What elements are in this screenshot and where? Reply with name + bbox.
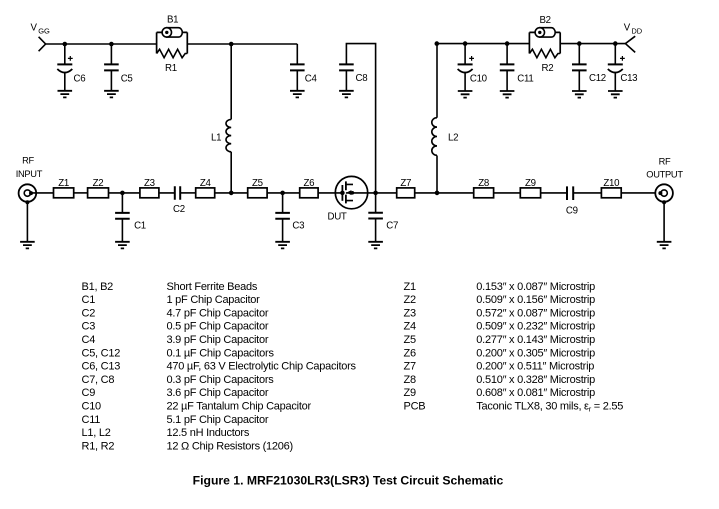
svg-text:Z5: Z5 (404, 334, 416, 346)
capacitor C10 (tantalum electrolytic) (458, 44, 488, 91)
value label Z7 : 0.200 x 0.511 Microstrip (404, 361, 595, 373)
svg-text:0.277″ x 0.143″ Microstrip: 0.277″ x 0.143″ Microstrip (476, 334, 595, 346)
svg-text:R1, R2: R1, R2 (82, 440, 115, 452)
value label Z9 : 0.608 x 0.081 Microstrip (404, 387, 596, 399)
node junction C1/main line (120, 191, 125, 196)
svg-text:Short Ferrite Beads: Short Ferrite Beads (167, 281, 258, 293)
wire Z6 to DUT gate (318, 192, 342, 194)
node junction C11/rail (505, 41, 510, 46)
node junction C6/rail (63, 42, 68, 47)
microstrip Z3 (140, 178, 159, 198)
node junction C5/rail (109, 42, 114, 47)
node junction L2/main line (435, 191, 440, 196)
microstrip Z9 (520, 178, 540, 198)
svg-text:0.5 pF Chip Capacitor: 0.5 pF Chip Capacitor (167, 321, 269, 333)
svg-text:5.1 pF Chip Capacitor: 5.1 pF Chip Capacitor (167, 414, 269, 426)
svg-text:0.608″ x 0.081″ Microstrip: 0.608″ x 0.081″ Microstrip (476, 387, 595, 399)
capacitor C11 (500, 44, 534, 91)
svg-text:C1: C1 (82, 294, 96, 306)
svg-text:12 Ω Chip Resistors (1206): 12 Ω Chip Resistors (1206) (167, 440, 293, 452)
value label C7, C8 : 0.3 pF Chip Capacitors (82, 374, 275, 386)
ground (RF input) (20, 242, 35, 249)
wire C8 net to DUT drain (346, 44, 375, 193)
node junction C10/rail (463, 41, 468, 46)
ground (C7) (368, 242, 383, 249)
svg-text:RF: RF (22, 156, 34, 166)
svg-text:Z1: Z1 (58, 178, 69, 189)
value label C5, C12 : 0.1 uF Chip Capacitors (82, 347, 275, 359)
svg-text:C9: C9 (566, 206, 578, 217)
node junction L2/rail (435, 41, 440, 46)
capacitor C12 (572, 44, 606, 91)
svg-text:4.7 pF Chip Capacitor: 4.7 pF Chip Capacitor (167, 307, 269, 319)
wire Z5 to Z6 (267, 192, 300, 194)
svg-text:C2: C2 (173, 204, 185, 215)
svg-text:C10: C10 (82, 401, 102, 413)
svg-text:PCB: PCB (404, 401, 426, 413)
svg-text:Z2: Z2 (404, 294, 416, 306)
value label Z8 : 0.510 x 0.328 Microstrip (404, 374, 596, 386)
ground (C3) (275, 242, 290, 249)
microstrip Z8 (474, 178, 494, 198)
svg-text:L1: L1 (211, 133, 221, 144)
capacitor C1 (115, 193, 146, 242)
svg-text:0.200″ x 0.511″ Microstrip: 0.200″ x 0.511″ Microstrip (476, 361, 594, 373)
node junction C12/rail (577, 41, 582, 46)
svg-text:B1: B1 (167, 15, 178, 26)
svg-text:22 µF Tantalum Chip Capacitor: 22 µF Tantalum Chip Capacitor (167, 401, 312, 413)
svg-text:470 µF, 63 V Electrolytic Chip: 470 µF, 63 V Electrolytic Chip Capacitor… (167, 361, 357, 373)
wire Z1 to Z2 (74, 192, 88, 194)
wire Z3 to C2 (159, 192, 175, 194)
svg-text:C7: C7 (386, 221, 398, 232)
value label Z4 : 0.509 x 0.232 Microstrip (404, 321, 596, 333)
svg-text:Z4: Z4 (404, 321, 416, 333)
svg-text:V: V (31, 23, 38, 34)
connector J2 RF OUTPUT (646, 157, 683, 242)
wire VDD arrow (625, 36, 635, 52)
value label B1, B2 : Short Ferrite Beads (82, 281, 258, 293)
svg-text:C5, C12: C5, C12 (82, 347, 121, 359)
svg-text:Z8: Z8 (404, 374, 416, 386)
svg-text:GG: GG (38, 26, 50, 35)
wire Z4 to Z5 (215, 192, 248, 194)
svg-text:C6, C13: C6, C13 (82, 361, 121, 373)
svg-text:R2: R2 (542, 63, 554, 74)
svg-text:0.153″ x 0.087″ Microstrip: 0.153″ x 0.087″ Microstrip (476, 281, 595, 293)
svg-text:Taconic TLX8, 30 mils, εr = 2.: Taconic TLX8, 30 mils, εr = 2.55 (476, 401, 623, 414)
wire VDD rail (left of B2) (437, 43, 530, 45)
svg-text:0.200″ x 0.305″ Microstrip: 0.200″ x 0.305″ Microstrip (476, 347, 595, 359)
connector J1 RF INPUT (16, 156, 43, 242)
svg-text:0.509″ x 0.232″ Microstrip: 0.509″ x 0.232″ Microstrip (476, 321, 595, 333)
wire Z8 to Z9 (494, 192, 521, 194)
wire Z9 to C9 (541, 192, 567, 194)
ground (C11) (500, 91, 515, 98)
ground (C1) (115, 242, 130, 249)
svg-text:0.509″ x 0.156″ Microstrip: 0.509″ x 0.156″ Microstrip (476, 294, 595, 306)
value label C4 : 3.9 pF Chip Capacitor (82, 334, 269, 346)
svg-text:C12: C12 (589, 73, 606, 84)
value label PCB : Taconic TLX8, 30 mils, er = 2.55 (404, 401, 624, 414)
svg-text:Z3: Z3 (404, 307, 416, 319)
microstrip Z10 (601, 178, 621, 198)
transistor DUT (LDMOS FET) (328, 176, 368, 222)
wire C9 to Z10 (573, 192, 601, 194)
value label C10 : 22 uF Tantalum Chip Capacitor (82, 401, 312, 413)
svg-text:R1: R1 (165, 63, 177, 74)
value label C2 : 4.7 pF Chip Capacitor (82, 307, 269, 319)
ground (C13) (608, 91, 623, 98)
svg-text:C11: C11 (82, 414, 101, 426)
value label C11 : 5.1 pF Chip Capacitor (82, 414, 269, 426)
svg-text:C2: C2 (82, 307, 96, 319)
ground (C8) (339, 91, 354, 98)
svg-text:1 pF Chip Capacitor: 1 pF Chip Capacitor (167, 294, 261, 306)
microstrip Z4 (196, 178, 215, 198)
microstrip Z7 (397, 178, 415, 198)
microstrip Z6 (300, 178, 318, 198)
microstrip Z2 (88, 178, 109, 198)
ground (RF output) (657, 242, 672, 249)
capacitor C3 (275, 193, 304, 242)
wire Z10 to J2 (621, 192, 660, 194)
value label Z2 : 0.509 x 0.156 Microstrip (404, 294, 596, 306)
value label Z5 : 0.277 x 0.143 Microstrip (404, 334, 596, 346)
svg-text:Z6: Z6 (404, 347, 416, 359)
value label Z3 : 0.572 x 0.087 Microstrip (404, 307, 596, 319)
svg-text:0.510″ x 0.328″ Microstrip: 0.510″ x 0.328″ Microstrip (476, 374, 595, 386)
wire VGG rail (right of B1) (187, 43, 297, 45)
svg-text:3.6 pF Chip Capacitor: 3.6 pF Chip Capacitor (167, 387, 269, 399)
wire VGG rail (left of B1) (46, 43, 157, 45)
capacitor C9 (series) (566, 186, 578, 216)
svg-text:C10: C10 (470, 73, 488, 84)
svg-text:C13: C13 (620, 73, 637, 84)
node junction DUT drain / C7 / C8 (373, 191, 378, 196)
svg-text:C3: C3 (292, 221, 304, 232)
capacitor C7 (368, 193, 398, 242)
microstrip Z1 (54, 178, 74, 198)
svg-text:B1, B2: B1, B2 (82, 281, 114, 293)
capacitor C13 (electrolytic) (608, 44, 637, 91)
value label L1, L2 : 12.5 nH Inductors (82, 427, 250, 439)
capacitor C4 (290, 44, 317, 91)
svg-text:C3: C3 (82, 321, 96, 333)
svg-text:C9: C9 (82, 387, 96, 399)
node VGG input (31, 23, 51, 36)
node junction L1/main line (229, 191, 234, 196)
svg-text:L2: L2 (448, 133, 458, 144)
svg-text:C8: C8 (356, 73, 368, 84)
svg-text:0.572″ x 0.087″ Microstrip: 0.572″ x 0.087″ Microstrip (476, 307, 595, 319)
svg-text:Z10: Z10 (603, 178, 620, 189)
svg-text:Figure 1. MRF21030LR3(LSR3) Te: Figure 1. MRF21030LR3(LSR3) Test Circuit… (193, 473, 504, 487)
capacitor C5 (104, 44, 132, 91)
wire Z2 to Z3 (109, 192, 140, 194)
value label C6, C13 : 470 uF, 63 V Electrolytic Chip Capacitors (82, 361, 357, 373)
svg-text:C4: C4 (305, 73, 318, 84)
value label C1 : 1 pF Chip Capacitor (82, 294, 261, 306)
wire DUT drain to Z7 (346, 192, 397, 194)
capacitor C2 (series) (173, 186, 185, 215)
value label Z1 : 0.153 x 0.087 Microstrip (404, 281, 596, 293)
ground (C10) (458, 91, 473, 98)
wire main line J1 to Z1 (31, 192, 54, 194)
wire Z7 to Z8 (415, 192, 474, 194)
svg-text:12.5 nH Inductors: 12.5 nH Inductors (167, 427, 250, 439)
node VDD input (624, 23, 643, 36)
svg-text:3.9 pF Chip Capacitor: 3.9 pF Chip Capacitor (167, 334, 269, 346)
svg-text:0.1 µF Chip Capacitors: 0.1 µF Chip Capacitors (167, 347, 275, 359)
svg-text:C4: C4 (82, 334, 96, 346)
svg-text:OUTPUT: OUTPUT (646, 170, 683, 180)
node junction C3/main line (280, 191, 285, 196)
inductor L2 (432, 44, 458, 193)
svg-text:RF: RF (659, 157, 671, 167)
value label C3 : 0.5 pF Chip Capacitor (82, 321, 269, 333)
svg-text:Z7: Z7 (404, 361, 416, 373)
svg-text:Z1: Z1 (404, 281, 416, 293)
node junction L1/rail (229, 42, 234, 47)
svg-text:DD: DD (631, 26, 642, 35)
node junction C13/rail (613, 41, 618, 46)
svg-text:Z5: Z5 (252, 178, 263, 189)
ferrite bead B2 / resistor R2 parallel network (529, 15, 560, 74)
svg-text:Z9: Z9 (404, 387, 416, 399)
microstrip Z5 (248, 178, 267, 198)
svg-text:Z3: Z3 (144, 178, 155, 189)
svg-text:C5: C5 (121, 73, 133, 84)
ferrite bead B1 / resistor R1 parallel network (157, 15, 188, 74)
value label C9 : 3.6 pF Chip Capacitor (82, 387, 269, 399)
svg-text:Z6: Z6 (304, 178, 315, 189)
wire VDD rail (right of B2) (560, 43, 625, 45)
value label Z6 : 0.200 x 0.305 Microstrip (404, 347, 596, 359)
capacitor C8 (339, 64, 367, 90)
ground (C5) (104, 91, 119, 98)
svg-text:C7, C8: C7, C8 (82, 374, 115, 386)
value label R1, R2 : 12 ohm Chip Resistors (1206) (82, 440, 293, 452)
svg-text:C11: C11 (517, 73, 533, 84)
svg-text:L1, L2: L1, L2 (82, 427, 111, 439)
inductor L1 (211, 44, 231, 193)
wire VGG arrow (39, 37, 46, 51)
capacitor C6 (electrolytic) (57, 44, 85, 91)
ground (C6) (58, 91, 73, 98)
svg-text:0.3 pF Chip Capacitors: 0.3 pF Chip Capacitors (167, 374, 275, 386)
svg-text:Z8: Z8 (478, 178, 489, 189)
svg-text:Z4: Z4 (200, 178, 212, 189)
svg-text:Z7: Z7 (400, 178, 411, 189)
svg-text:INPUT: INPUT (16, 169, 43, 179)
ground (C12) (572, 91, 587, 98)
svg-text:DUT: DUT (328, 212, 347, 223)
svg-text:C1: C1 (134, 221, 146, 232)
svg-text:Z9: Z9 (525, 178, 536, 189)
svg-text:B2: B2 (540, 15, 551, 26)
wire C2 to Z4 (180, 192, 196, 194)
svg-text:V: V (624, 23, 631, 34)
svg-text:Z2: Z2 (93, 178, 104, 189)
ground (C4) (290, 91, 305, 98)
svg-text:C6: C6 (74, 73, 86, 84)
